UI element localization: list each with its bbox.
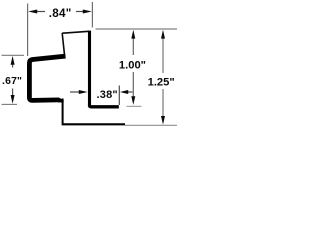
dim .84: right arrow	[76, 11, 84, 13]
svg-text:.67": .67"	[2, 76, 22, 87]
dim .84: left arrow	[37, 11, 46, 13]
svg-text:1.00": 1.00"	[119, 60, 146, 72]
profile: bottom flange horizontal	[62, 123, 125, 125]
dim 1.00: lower segment with down arrow	[132, 72, 134, 97]
dim 1.00: bottom tick	[127, 105, 142, 107]
dim .84: right extension line	[91, 2, 93, 28]
dim .38: right arrow	[128, 91, 133, 93]
bottom reference line continuing to right edge	[125, 124, 177, 126]
dim 1.00: upper segment with up arrow	[132, 38, 134, 55]
profile: thick C-channel section	[29, 56, 65, 100]
dim .38: left arrow	[70, 91, 80, 93]
profile: hook rectangle right edge	[88, 31, 91, 105]
svg-text:.38": .38"	[97, 89, 118, 101]
svg-text:1.25": 1.25"	[148, 77, 175, 89]
profile: thick bottom step	[90, 105, 119, 107]
profile: bottom flange vertical	[62, 99, 64, 124]
dim .67: bottom tick	[2, 103, 18, 105]
dim .38: right extension line	[118, 86, 120, 106]
svg-text:.84": .84"	[49, 7, 72, 20]
dim 1.25: lower segment with down arrow	[162, 89, 164, 117]
top extension line for 1.00 and 1.25	[96, 28, 178, 30]
dim .67: top tick	[2, 54, 25, 56]
dim 1.25: upper segment with up arrow	[162, 38, 164, 73]
profile: hook rectangle top edge	[63, 31, 90, 33]
dim .84: left extension line	[27, 4, 29, 57]
dim .67: up arrow	[12, 64, 14, 68]
profile: wedge joining C bottom arm to flange	[58, 97, 64, 102]
profile: hook rectangle left edge	[62, 33, 65, 59]
dim .67: down arrow	[12, 89, 14, 96]
